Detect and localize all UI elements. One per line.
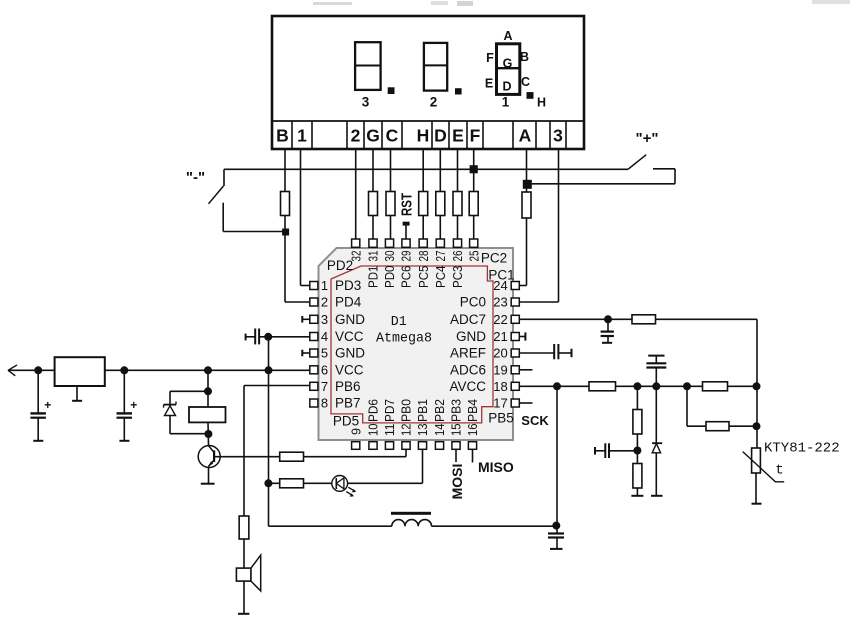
svg-text:9: 9 [348, 428, 363, 435]
transistor base wire from PB0 [214, 456, 280, 458]
relay coil K1 [189, 407, 226, 422]
svg-text:23: 23 [493, 295, 507, 310]
display digit 3 decimal point [388, 87, 395, 94]
resistor on wire D [436, 192, 445, 216]
svg-text:31: 31 [366, 251, 381, 262]
pin16 MISO stub [472, 449, 474, 462]
svg-text:11: 11 [382, 424, 397, 437]
LED branch wire to VCC column [269, 482, 280, 484]
svg-text:A: A [519, 126, 532, 146]
pin5 GND stub [302, 352, 310, 354]
svg-text:2: 2 [430, 95, 438, 110]
speaker BA1 [236, 568, 251, 581]
svg-text:13: 13 [415, 424, 430, 437]
svg-text:PB4: PB4 [465, 399, 480, 422]
svg-text:PB5: PB5 [488, 411, 514, 426]
junction dot sensor column mid [753, 422, 761, 430]
display module pin-row divider line [272, 120, 584, 122]
svg-text:15: 15 [449, 424, 464, 437]
svg-text:2: 2 [351, 126, 361, 146]
resistor on lower branch [706, 422, 729, 431]
svg-text:PD1: PD1 [366, 266, 381, 289]
junction dot AVCC [553, 382, 561, 390]
svg-text:25: 25 [466, 251, 481, 262]
svg-text:PC5: PC5 [416, 266, 431, 289]
LED wire to resistor [304, 482, 332, 484]
svg-text:PB0: PB0 [399, 399, 414, 422]
svg-text:1: 1 [502, 95, 510, 110]
resistor on wire C [386, 192, 395, 216]
svg-text:G: G [503, 57, 513, 71]
svg-text:14: 14 [432, 424, 447, 437]
svg-text:GND: GND [335, 312, 365, 327]
svg-text:KTY81-222: KTY81-222 [764, 441, 840, 457]
svg-text:PD7: PD7 [382, 399, 397, 422]
svg-text:ADC7: ADC7 [450, 312, 486, 327]
svg-text:H: H [417, 126, 430, 146]
LED emission arrows [346, 487, 355, 495]
svg-text:C: C [521, 75, 530, 89]
junction dot sensor column top [753, 382, 761, 390]
svg-text:D1: D1 [391, 314, 407, 330]
svg-text:PB2: PB2 [432, 399, 447, 422]
svg-text:29: 29 [399, 251, 414, 262]
svg-text:+: + [130, 398, 137, 412]
faint cropped text remnant right [812, 0, 850, 4]
pin4 VCC wire with capacitor [246, 336, 255, 338]
junction dot diode top [204, 387, 212, 395]
resistor divider lower [633, 464, 642, 489]
capacitor above zener column [655, 357, 657, 364]
svg-text:1: 1 [321, 278, 328, 293]
svg-text:4: 4 [321, 329, 328, 344]
capacitor below inductor junction [556, 526, 558, 533]
svg-text:5: 5 [321, 346, 328, 361]
pin7 PB6 wire [244, 385, 310, 387]
junction dot input [34, 366, 42, 374]
svg-text:D: D [502, 80, 511, 94]
svg-text:AVCC: AVCC [449, 379, 486, 394]
svg-text:GND: GND [335, 346, 365, 361]
pin13 PB1 wire to LED [422, 449, 424, 483]
regulator ground stub [76, 386, 78, 400]
svg-text:PD5: PD5 [333, 414, 359, 429]
display digit 3 outline [355, 42, 381, 90]
LED HL1 [332, 476, 348, 492]
resistor on ADC7 wire [632, 315, 656, 324]
svg-text:ADC6: ADC6 [450, 363, 486, 378]
display digit 1 decimal point [527, 92, 534, 99]
inductor wire left segment [269, 525, 392, 527]
svg-text:B: B [276, 126, 289, 146]
display module LED1 outer box [272, 16, 584, 149]
resistor on wire A [522, 192, 531, 218]
wire segment 1 from display to pin 1 [300, 149, 302, 286]
svg-text:PD6: PD6 [366, 399, 381, 422]
diode top wire [170, 390, 208, 392]
svg-text:27: 27 [433, 251, 448, 262]
junction dot divider top [633, 382, 641, 390]
svg-text:PB3: PB3 [449, 399, 464, 422]
faint cropped text remnant middle [431, 1, 448, 5]
svg-text:Atmega8: Atmega8 [376, 331, 432, 347]
wire segment A from display [526, 149, 528, 192]
svg-text:19: 19 [493, 363, 507, 378]
display digit 2 outline [424, 43, 447, 91]
resistor divider upper [633, 410, 642, 435]
capacitor on ADC7 wire [607, 319, 609, 331]
junction dot LED branch [264, 479, 272, 487]
junction square wire A (plus switch) [523, 180, 532, 189]
inductor coils [392, 520, 432, 527]
wire segment H from display [422, 149, 424, 192]
pin12 PB0 stub [405, 449, 407, 456]
pin21 GND stub [519, 336, 525, 338]
junction square on wire B (minus switch) [282, 229, 289, 236]
svg-text:SCK: SCK [521, 413, 549, 428]
svg-text:30: 30 [382, 251, 397, 262]
svg-text:PC0: PC0 [460, 295, 486, 310]
chip bottom pin pads 9..16 [352, 442, 360, 450]
svg-text:PC4: PC4 [433, 266, 448, 289]
electrolytic capacitor C1 [37, 370, 39, 413]
wire pin22 ADC7 to sensor column [519, 318, 632, 320]
svg-text:8: 8 [321, 396, 328, 411]
VCC vertical wire to LED row and inductor [268, 337, 270, 526]
svg-text:20: 20 [493, 346, 507, 361]
pin3 GND stub [302, 318, 310, 320]
relay column wire lower [207, 422, 210, 445]
svg-text:C: C [386, 126, 399, 146]
diode bottom wire [170, 433, 208, 435]
svg-text:2: 2 [321, 295, 328, 310]
speaker column wire [243, 386, 245, 517]
display digit 2 decimal point [455, 88, 462, 94]
junction dot VCC rail at chip column [265, 366, 273, 374]
svg-text:GND: GND [456, 329, 486, 344]
svg-text:+: + [44, 398, 51, 412]
chip right pin pads 24..17 [511, 282, 519, 290]
wire segment F from display [473, 149, 475, 192]
svg-text:E: E [452, 126, 464, 146]
svg-text:"-": "-" [186, 169, 205, 186]
svg-text:H: H [537, 96, 546, 110]
pin18 AVCC wire [519, 385, 589, 387]
chip D1 red inner outline [331, 266, 493, 423]
input arrow [8, 369, 55, 371]
speaker ground tick [238, 613, 249, 615]
minus switch [223, 169, 225, 186]
svg-text:B: B [520, 50, 529, 64]
ground tick divider [631, 495, 643, 497]
sensor bottom wire and tick [755, 473, 757, 503]
wire segment 3 from display to pin 23 [558, 149, 560, 302]
svg-text:6: 6 [321, 363, 328, 378]
svg-text:PD4: PD4 [335, 295, 362, 310]
resistor on wire E [453, 192, 462, 216]
svg-text:21: 21 [493, 329, 507, 344]
wire segment B from display [284, 149, 286, 192]
svg-text:E: E [485, 77, 493, 91]
svg-text:22: 22 [493, 312, 507, 327]
electrolytic capacitor C2 [123, 370, 125, 413]
resistor on AVCC wire 2 [703, 382, 728, 391]
svg-text:28: 28 [416, 251, 431, 262]
svg-text:MOSI: MOSI [449, 464, 465, 500]
flyback diode VD1 [169, 391, 171, 404]
svg-text:PB1: PB1 [415, 399, 430, 422]
display digit 1 outline [497, 44, 520, 95]
wire pin18 down to inductor line [556, 386, 558, 526]
svg-text:16: 16 [465, 424, 480, 437]
svg-text:A: A [503, 29, 512, 43]
junction dot pin4 [264, 333, 272, 341]
RST stub wire [405, 225, 407, 239]
voltage regulator U2 [55, 357, 105, 386]
wire segment E from display [457, 149, 459, 192]
RST stub square [403, 222, 410, 226]
resistor on wire B [281, 192, 290, 216]
resistor on wire G [369, 192, 378, 216]
svg-text:24: 24 [493, 278, 507, 293]
common switch line [224, 168, 628, 170]
chip D1 body [319, 248, 514, 440]
AVCC lower branch wire [686, 386, 688, 426]
resistor LED [280, 479, 304, 488]
transistor emitter wire and tick [208, 466, 210, 483]
svg-text:PC3: PC3 [450, 266, 465, 289]
junction dot VCC rail at relay column [204, 366, 212, 374]
svg-text:18: 18 [493, 379, 507, 394]
capacitor at divider mid [594, 447, 596, 455]
svg-text:RST: RST [398, 193, 415, 216]
ground tick zener [651, 495, 663, 497]
pin17 stub [519, 402, 532, 404]
junction dot regulator output [120, 366, 128, 374]
svg-text:26: 26 [450, 251, 465, 262]
junction dot ADC7 cap [604, 315, 612, 323]
svg-text:3: 3 [553, 126, 563, 146]
wire segment C from display [390, 149, 392, 192]
svg-text:D: D [434, 126, 447, 146]
svg-text:PD3: PD3 [335, 278, 361, 293]
inductor core bar [391, 512, 431, 515]
junction dot zener top [652, 382, 660, 390]
pin15 MOSI stub [455, 449, 457, 462]
VCC rail wire [105, 369, 310, 371]
resistor speaker column [239, 516, 249, 539]
pin20 AREF capacitor [519, 352, 554, 354]
svg-text:AREF: AREF [450, 346, 486, 361]
svg-text:PC6: PC6 [399, 266, 414, 289]
junction dot divider mid [633, 447, 641, 455]
pin19 ADC6 stub [519, 369, 532, 371]
svg-text:12: 12 [399, 424, 414, 437]
sensor strike-through line [743, 452, 785, 482]
svg-text:PD2: PD2 [327, 258, 353, 273]
faint cropped text remnant left [313, 2, 352, 5]
chip left pin pads 1..8 [310, 282, 318, 290]
resistor on AVCC wire 1 [589, 382, 616, 391]
plus switch [628, 155, 646, 170]
divider column wire [636, 386, 638, 409]
inductor wire right segment [432, 525, 558, 527]
relay column wire upper [207, 370, 209, 407]
svg-text:F: F [470, 126, 481, 146]
svg-text:MISO: MISO [478, 459, 514, 475]
svg-text:3: 3 [362, 95, 370, 110]
display pin-row cell dividers [291, 121, 293, 149]
svg-text:PB6: PB6 [335, 379, 361, 394]
svg-text:t: t [775, 463, 783, 479]
sensor KTY81-222 body [752, 448, 761, 473]
chip top pin pads 32..25 [352, 239, 360, 247]
wire segment D from display [439, 149, 441, 192]
svg-text:PC2: PC2 [481, 251, 507, 266]
resistor on wire F [469, 192, 478, 216]
faint cropped text remnant middle-right [457, 1, 473, 6]
svg-text:7: 7 [321, 379, 328, 394]
wire segment G from display [372, 149, 374, 192]
svg-text:PD0: PD0 [382, 266, 397, 289]
wire segment 2 from display to pin 32 [355, 149, 357, 239]
junction dot inductor cap [552, 522, 560, 530]
transistor Q1 [198, 446, 220, 468]
junction dot diode bottom [204, 430, 212, 438]
svg-text:17: 17 [493, 396, 507, 411]
junction square wire F common line [470, 165, 478, 173]
svg-text:1: 1 [297, 126, 307, 146]
svg-text:F: F [486, 51, 494, 65]
svg-text:PB7: PB7 [335, 396, 361, 411]
svg-text:3: 3 [321, 312, 328, 327]
resistor on wire H [419, 192, 428, 216]
junction dot AVCC branch [683, 382, 691, 390]
svg-text:10: 10 [366, 424, 381, 437]
resistor base PB0 [280, 452, 304, 461]
zener diode column [655, 386, 657, 443]
svg-text:"+": "+" [636, 130, 659, 147]
svg-text:VCC: VCC [335, 363, 364, 378]
svg-text:G: G [366, 126, 380, 146]
svg-text:VCC: VCC [335, 329, 364, 344]
